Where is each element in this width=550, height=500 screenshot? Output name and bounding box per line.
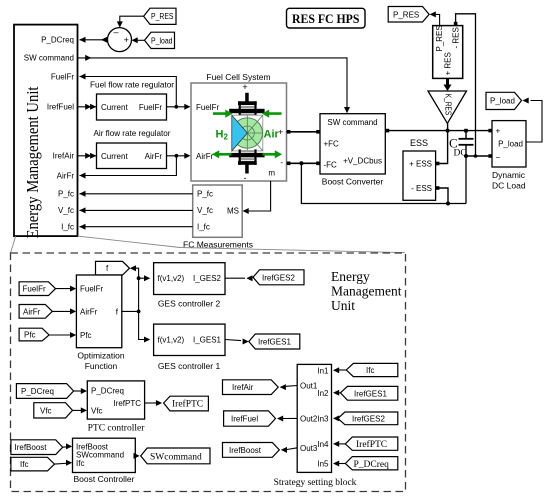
From tag AirFr <box>19 305 52 319</box>
expansion lines EMU to dashed box <box>11 236 406 253</box>
Goto tag IrefBoost (strategy out) <box>223 443 280 458</box>
svg-text:IrefPTC: IrefPTC <box>172 399 203 410</box>
svg-text:SWcommand: SWcommand <box>150 453 202 463</box>
svg-text:IrefBoost: IrefBoost <box>15 443 48 452</box>
From tag IrefPTC (strategy) <box>345 437 398 450</box>
wire FC- down to negative rail <box>301 163 466 203</box>
GES controller 1 block <box>154 324 225 371</box>
Air flow rate regulator <box>94 128 171 169</box>
Goto tag IrefGES2 <box>253 270 304 285</box>
From tag P_RES (top) <box>144 8 176 24</box>
wire K_RES to DC bus <box>447 123 449 130</box>
wire FC+ to Boost +FC (electrical) <box>287 130 321 134</box>
svg-text:Air: Air <box>264 129 280 141</box>
thick arrow RES block to K_RES <box>444 78 452 91</box>
svg-text:IrefFuel: IrefFuel <box>47 103 74 112</box>
Optimization Function block <box>76 275 124 371</box>
svg-text:IrefGES2: IrefGES2 <box>262 273 295 282</box>
svg-text:P_RES: P_RES <box>151 12 174 21</box>
wires to PTC controller <box>73 388 88 413</box>
Dynamic DC Load block <box>488 121 526 191</box>
green flow arrows <box>212 110 282 159</box>
wire RES block P_RES out to tag <box>430 11 440 25</box>
ESS block <box>403 138 436 200</box>
svg-text:P_RES: P_RES <box>435 25 444 51</box>
svg-text:Vfc: Vfc <box>40 406 52 415</box>
svg-text:P_fc: P_fc <box>58 190 74 199</box>
svg-text:ESS: ESS <box>410 138 428 148</box>
EMU detail title <box>331 269 402 313</box>
svg-text:P_DCreq: P_DCreq <box>91 387 124 396</box>
wires to Boost Controller <box>55 443 73 465</box>
Goto tag IrefPTC <box>164 396 209 411</box>
wire Boost Controller to SWcommand tag <box>134 453 140 459</box>
sum block <box>108 27 132 51</box>
svg-text:AirFr: AirFr <box>23 307 41 316</box>
svg-text:RES FC HPS: RES FC HPS <box>292 11 360 26</box>
svg-text:+: + <box>242 82 247 92</box>
From tag Ifc <box>11 457 55 471</box>
svg-text:P_load: P_load <box>151 36 173 45</box>
svg-text:Fuel Cell System: Fuel Cell System <box>206 72 270 82</box>
svg-text:FuelFr: FuelFr <box>196 103 219 112</box>
wire PTC to IrefPTC tag <box>145 400 163 406</box>
svg-text:P_DCreq: P_DCreq <box>41 36 74 45</box>
From tag P_DCreq (strategy) <box>345 457 398 470</box>
fuel cell icon <box>212 82 282 183</box>
svg-text:Boost Controller: Boost Controller <box>74 474 135 484</box>
svg-text:PTC controller: PTC controller <box>88 424 146 434</box>
wire FC- to Boost -FC (electrical) <box>287 161 321 165</box>
svg-text:+ RES: + RES <box>444 52 453 75</box>
Goto tag IrefFuel <box>224 411 276 426</box>
membrane circle <box>232 118 262 148</box>
wire ESS+ to bus <box>436 131 448 166</box>
svg-text:Out3: Out3 <box>300 444 318 453</box>
wires strategy from-tags to In ports <box>333 367 346 466</box>
svg-text:Unit: Unit <box>331 298 355 313</box>
svg-text:AirFr: AirFr <box>196 152 214 161</box>
PTC controller block <box>87 381 145 434</box>
From tag IrefBoost <box>11 440 63 455</box>
wire Boost +V_DCbus to DC bus <box>385 129 489 133</box>
svg-text:K_RES: K_RES <box>444 94 453 116</box>
Fuel flow rate regulator <box>90 80 174 121</box>
svg-text:V_fc: V_fc <box>58 206 74 215</box>
From tag FuelFr <box>19 282 55 296</box>
svg-text:Fuel flow rate regulator: Fuel flow rate regulator <box>90 80 174 90</box>
svg-text:Boost Converter: Boost Converter <box>322 177 384 187</box>
top electrode <box>245 93 249 102</box>
svg-text:P_DCreq: P_DCreq <box>21 387 54 396</box>
wire ESS- to rail <box>436 186 450 205</box>
capacitor C_DC <box>449 129 474 159</box>
wire Dynamic DC Load P_load out to tag <box>523 98 543 143</box>
svg-text:- ESS: - ESS <box>411 184 432 193</box>
svg-text:Dynamic: Dynamic <box>492 170 526 180</box>
svg-text:SW command: SW command <box>327 118 377 127</box>
svg-text:Pfc: Pfc <box>80 331 92 340</box>
wire fuel regulator out to FC + branch to EMU FuelFr <box>79 74 190 110</box>
svg-text:In2: In2 <box>317 389 329 398</box>
svg-text:IrefAir: IrefAir <box>232 383 254 392</box>
svg-text:+: + <box>278 127 283 136</box>
svg-text:Energy Management Unit: Energy Management Unit <box>23 86 42 238</box>
Boost Converter block <box>320 114 385 187</box>
svg-text:GES controller 2: GES controller 2 <box>158 299 221 309</box>
svg-text:Ifc: Ifc <box>76 459 84 468</box>
Goto tag P_load (right) <box>486 92 522 109</box>
svg-text:Management: Management <box>331 284 402 299</box>
svg-text:I_fc: I_fc <box>197 223 210 232</box>
svg-text:Out1: Out1 <box>300 382 318 391</box>
svg-text:Ifc: Ifc <box>20 460 28 469</box>
svg-text:FuelFr: FuelFr <box>139 103 162 112</box>
svg-text:–: – <box>113 27 118 37</box>
svg-text:I_GES1: I_GES1 <box>193 336 222 345</box>
svg-text:−: − <box>496 153 501 162</box>
From tag Vfc <box>34 403 73 418</box>
svg-text:IrefGES1: IrefGES1 <box>354 389 387 398</box>
wires tags to Optimization Function <box>49 289 74 335</box>
svg-text:P_RES: P_RES <box>393 10 419 19</box>
svg-text:AirFr: AirFr <box>57 171 75 180</box>
wire P_RES to sum <box>117 16 144 27</box>
svg-text:GES controller 1: GES controller 1 <box>158 361 221 371</box>
svg-text:P_fc: P_fc <box>197 190 213 199</box>
Energy Management Unit block <box>14 25 78 239</box>
cell body square <box>232 115 263 151</box>
From tag IrefGES2 (strategy) <box>338 412 398 425</box>
From tag IrefGES1 (strategy) <box>340 386 397 400</box>
svg-text:AirFr: AirFr <box>145 152 163 161</box>
svg-text:IrefBoost: IrefBoost <box>229 446 262 455</box>
wire m to MS <box>243 181 271 214</box>
svg-text:Strategy setting block: Strategy setting block <box>274 478 357 488</box>
svg-text:- RES: - RES <box>452 27 461 48</box>
svg-text:FuelFr: FuelFr <box>80 285 103 294</box>
svg-text:Air flow rate regulator: Air flow rate regulator <box>94 128 171 138</box>
svg-text:In4: In4 <box>317 440 329 449</box>
svg-text:Out2: Out2 <box>300 414 318 423</box>
svg-text:+ ESS: + ESS <box>409 159 432 168</box>
Goto tag IrefAir <box>223 380 279 395</box>
dashed EMU boundary box <box>11 253 406 492</box>
wire GES2 to IrefGES2 <box>225 275 253 281</box>
svg-text:m: m <box>268 169 275 178</box>
From tag Ifc (strategy) <box>346 363 398 376</box>
FC Measurements block <box>183 185 253 249</box>
svg-text:DC Load: DC Load <box>492 181 526 191</box>
svg-text:+V_DCbus: +V_DCbus <box>343 156 382 165</box>
wires strategy outs to goto tags <box>277 384 297 453</box>
Goto tag f <box>96 261 130 275</box>
svg-text:FuelFr: FuelFr <box>23 285 46 294</box>
svg-text:P_load: P_load <box>490 97 515 106</box>
wire IrefAir to air regulator <box>78 153 97 159</box>
svg-text:-: - <box>244 173 247 183</box>
svg-text:+FC: +FC <box>324 140 340 149</box>
wire sum to EMU P_DCreq <box>79 37 107 43</box>
svg-text:P_DCreq: P_DCreq <box>354 460 390 470</box>
From tag Pfc <box>19 328 49 341</box>
svg-text:DC: DC <box>454 149 467 159</box>
svg-text:IrefGES2: IrefGES2 <box>352 415 385 424</box>
svg-text:IrefAir: IrefAir <box>53 152 75 161</box>
Goto tag IrefGES1 <box>249 334 300 349</box>
svg-text:Current: Current <box>101 152 128 161</box>
svg-text:+: + <box>124 35 129 45</box>
svg-text:In3: In3 <box>317 414 329 423</box>
Fuel Cell System block <box>191 72 287 181</box>
svg-text:SW command: SW command <box>24 54 74 63</box>
Goto tag SWcommand <box>141 448 210 464</box>
Goto tag P_RES (top right) <box>388 7 429 23</box>
title RES FC HPS <box>287 8 366 28</box>
negative rail to load <box>466 154 489 203</box>
wire SW command to Boost Converter <box>78 55 351 113</box>
wires FC measurements to EMU <box>79 191 192 230</box>
wire air regulator out to FC + branch to EMU AirFr <box>79 153 190 179</box>
bottom electrode <box>229 153 264 157</box>
svg-text:I_GES2: I_GES2 <box>193 274 222 283</box>
svg-text:IrefFuel: IrefFuel <box>231 415 258 424</box>
svg-text:In1: In1 <box>317 366 329 375</box>
RES measurement block <box>433 22 463 79</box>
Boost Controller block <box>73 438 136 484</box>
gain K_RES <box>428 91 467 123</box>
svg-text:IrefPTC: IrefPTC <box>113 399 141 408</box>
svg-text:Energy: Energy <box>331 269 370 284</box>
GES controller 2 block <box>154 263 225 309</box>
svg-text:Current: Current <box>101 103 128 112</box>
svg-text:f(v1,v2): f(v1,v2) <box>158 274 185 283</box>
From tag P_DCreq (PTC) <box>16 384 73 399</box>
svg-text:+: + <box>496 127 501 136</box>
svg-text:IrefPTC: IrefPTC <box>356 439 387 450</box>
svg-text:Vfc: Vfc <box>91 407 103 416</box>
svg-text:AirFr: AirFr <box>80 307 98 316</box>
svg-text:-FC: -FC <box>324 161 338 170</box>
svg-text:IrefGES1: IrefGES1 <box>258 338 291 347</box>
svg-text:FuelFr: FuelFr <box>51 72 74 81</box>
svg-text:In5: In5 <box>317 460 329 469</box>
svg-text:f(v1,v2): f(v1,v2) <box>158 336 185 345</box>
H2 wedge <box>232 115 248 151</box>
Strategy setting block <box>274 364 357 488</box>
wire P_load to sum <box>132 37 145 43</box>
svg-text:MS: MS <box>227 207 239 216</box>
svg-text:Optimization: Optimization <box>77 351 125 361</box>
svg-text:I_fc: I_fc <box>61 223 74 232</box>
From tag P_load (top) <box>145 32 175 48</box>
svg-text:V_fc: V_fc <box>197 206 213 215</box>
svg-text:Function: Function <box>85 361 118 371</box>
wire IrefFuel to fuel regulator <box>78 104 97 110</box>
svg-text:P_load: P_load <box>498 140 523 149</box>
svg-text:Pfc: Pfc <box>24 331 36 340</box>
svg-text:Ifc: Ifc <box>366 366 374 375</box>
svg-text:-: - <box>280 158 283 167</box>
wire f out with branches <box>122 265 150 342</box>
wire -RES down right side <box>456 14 476 156</box>
wire GES1 to IrefGES1 <box>225 339 249 345</box>
